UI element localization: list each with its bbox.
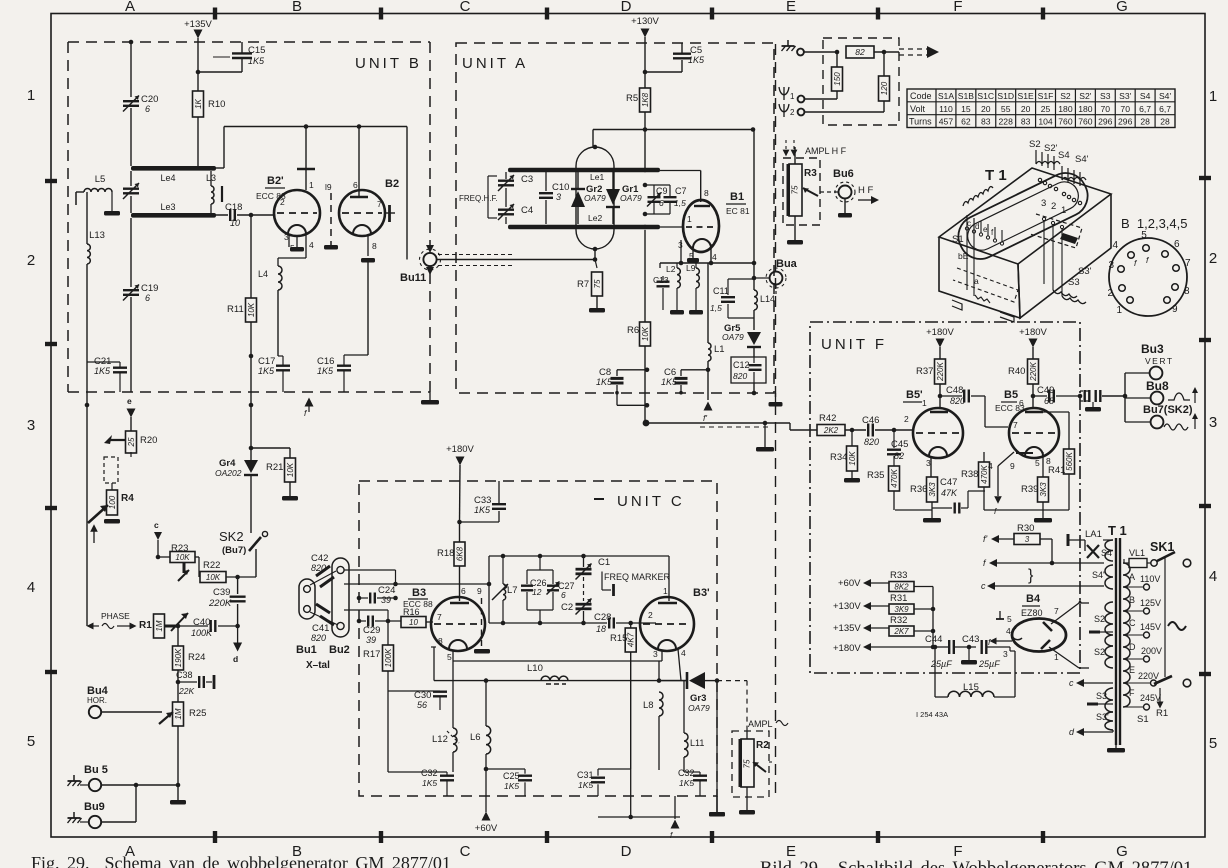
Le3 winding bar [131, 213, 216, 218]
svg-text:C15: C15 [248, 45, 265, 56]
svg-text:S1B: S1B [958, 91, 975, 101]
secondary S2' winding [1105, 646, 1113, 668]
svg-text:1K: 1K [194, 98, 203, 108]
svg-text:760: 760 [1058, 117, 1073, 127]
svg-text:1: 1 [1209, 88, 1217, 105]
svg-text:10K: 10K [848, 451, 857, 466]
svg-text:110: 110 [939, 104, 953, 114]
svg-text:10: 10 [409, 618, 418, 627]
svg-text:d: d [975, 222, 979, 231]
Le4 winding bar [131, 166, 216, 171]
svg-text:75: 75 [593, 279, 602, 288]
B4 cathode circle [1012, 628, 1022, 640]
svg-text:F: F [1129, 688, 1135, 698]
svg-text:C13: C13 [653, 275, 669, 285]
triode B1 [683, 200, 719, 252]
svg-text:C7: C7 [675, 186, 687, 196]
socket pin 9 [1164, 297, 1171, 304]
B2 plate [358, 127, 360, 198]
svg-text:2: 2 [648, 610, 653, 620]
svg-text:2: 2 [27, 252, 35, 269]
junction dots row 3 [85, 403, 90, 408]
svg-text:470K: 470K [980, 464, 989, 483]
svg-text:12: 12 [532, 587, 542, 597]
terminal d arrow [237, 626, 239, 643]
svg-text:C: C [460, 0, 471, 15]
svg-text:S1F: S1F [1038, 91, 1054, 101]
wire crystal bottom [344, 609, 388, 611]
Le2 winding bar [508, 225, 660, 230]
svg-text:Bu9: Bu9 [84, 801, 105, 813]
svg-text:R6: R6 [627, 325, 639, 336]
svg-text:145V: 145V [1140, 622, 1161, 632]
svg-text:C32: C32 [421, 768, 438, 778]
svg-text:2: 2 [1209, 250, 1217, 267]
R25 wiper arrow [159, 712, 173, 724]
svg-text:S4': S4' [1075, 154, 1089, 165]
wire [130, 108, 132, 166]
antenna input 2 [779, 104, 789, 117]
svg-text:R2: R2 [756, 740, 769, 751]
socket pin 1 [1127, 297, 1134, 304]
svg-text:I 254 43A: I 254 43A [916, 710, 948, 719]
svg-text:296: 296 [1098, 117, 1113, 127]
gang dashed link [583, 577, 585, 601]
svg-text:R30: R30 [1017, 523, 1034, 534]
svg-text:3: 3 [27, 417, 35, 434]
svg-text:18: 18 [596, 624, 606, 634]
svg-text:S1C: S1C [977, 91, 994, 101]
svg-text:B: B [292, 0, 302, 15]
junction dots [304, 124, 309, 129]
E-column long dashed boundary [775, 44, 777, 795]
svg-text:S2: S2 [1029, 139, 1041, 150]
svg-text:S3': S3' [1078, 266, 1092, 277]
svg-text:Bild 29. Schaltbild des Wobbe: Bild 29. Schaltbild des Wobbelgenerators… [760, 859, 1192, 868]
svg-text:Le4: Le4 [160, 173, 175, 183]
svg-text:C25: C25 [503, 771, 520, 781]
resistor R34 [851, 430, 853, 446]
svg-text:1K5: 1K5 [596, 377, 613, 387]
R23 wiper arrow [183, 562, 186, 573]
capacitor C41 plates [316, 604, 330, 613]
svg-text:R7: R7 [577, 279, 589, 290]
svg-text:120: 120 [880, 81, 889, 95]
svg-text:T 1: T 1 [1108, 523, 1127, 538]
svg-text:39: 39 [381, 595, 391, 605]
socket pin 6 [1162, 251, 1169, 258]
frame tick marks top [213, 8, 217, 20]
svg-text:4: 4 [681, 648, 686, 658]
B5 plate [1025, 411, 1043, 414]
resistor R7 [594, 249, 596, 260]
svg-text:8: 8 [1184, 286, 1190, 297]
svg-text:C3: C3 [521, 174, 533, 185]
B2 cathode pin 8 [367, 236, 369, 256]
B3 grid feed from oscillator [628, 621, 633, 626]
svg-text:Bu3: Bu3 [1141, 342, 1164, 356]
svg-text:Volt: Volt [910, 104, 926, 114]
svg-text:55: 55 [1001, 104, 1011, 114]
svg-text:3: 3 [653, 649, 658, 659]
svg-text:10K: 10K [286, 462, 295, 477]
R2 dashed box [732, 731, 769, 797]
svg-text:UNIT B: UNIT B [355, 55, 422, 72]
+180V arrow [456, 457, 465, 466]
svg-text:R4: R4 [121, 493, 134, 504]
T1 foot right [1000, 312, 1014, 322]
svg-text:+130V: +130V [833, 601, 861, 612]
S3 tap bar [1087, 703, 1098, 706]
svg-text:2: 2 [280, 197, 285, 207]
svg-text:3: 3 [1108, 260, 1114, 271]
chassis bar right of C12 [775, 393, 777, 402]
wire [197, 38, 199, 91]
svg-text:c: c [1069, 678, 1074, 688]
+130V arrow [641, 29, 650, 38]
svg-text:R15: R15 [610, 633, 627, 644]
secondary S3' winding [1105, 712, 1113, 730]
svg-text:UNIT A: UNIT A [462, 55, 528, 72]
svg-text:L12: L12 [432, 734, 448, 745]
capacitor C18 [229, 209, 231, 221]
svg-text:2: 2 [790, 108, 795, 117]
triode B5 [1009, 408, 1059, 458]
trimmer between Le4 and Le3 [130, 171, 132, 186]
T1 top coil group S2 S2' [1036, 150, 1054, 170]
wire [177, 726, 179, 785]
svg-text:C1: C1 [598, 557, 610, 568]
svg-text:d: d [233, 654, 238, 664]
svg-text:L6: L6 [470, 732, 481, 743]
svg-text:G: G [1116, 843, 1128, 860]
svg-text:9: 9 [1172, 304, 1178, 315]
svg-text:1: 1 [1061, 205, 1066, 216]
svg-text:C18: C18 [225, 202, 242, 213]
svg-text:25: 25 [1041, 104, 1051, 114]
svg-text:4K7: 4K7 [627, 632, 636, 647]
svg-text:4: 4 [309, 240, 314, 250]
svg-text:6: 6 [1019, 398, 1024, 408]
svg-text:56: 56 [417, 700, 427, 710]
svg-text:C47: C47 [940, 477, 957, 488]
svg-text:Bu1: Bu1 [296, 644, 317, 656]
T1 body right face [1018, 194, 1111, 318]
svg-text:T 1: T 1 [985, 167, 1007, 184]
svg-text:5: 5 [1209, 735, 1217, 752]
svg-text:1: 1 [1116, 305, 1122, 316]
svg-text:Bu7(SK2): Bu7(SK2) [1143, 404, 1193, 416]
svg-text:R1: R1 [139, 620, 152, 631]
svg-text:2: 2 [904, 414, 909, 424]
B3 plate [450, 602, 469, 605]
R2 wires [746, 731, 748, 739]
svg-text:AMPL H F: AMPL H F [805, 146, 847, 156]
attenuator dashed box [823, 38, 899, 125]
selector blade lower [1154, 676, 1172, 684]
svg-text:1,5: 1,5 [710, 303, 722, 313]
svg-text:Le3: Le3 [160, 202, 175, 212]
svg-text:+180V: +180V [833, 643, 861, 654]
svg-text:1,5: 1,5 [674, 198, 686, 208]
svg-text:A: A [125, 0, 135, 15]
svg-text:S1D: S1D [997, 91, 1014, 101]
svg-text:f': f' [703, 413, 707, 423]
AMPL HF dashed box [783, 158, 820, 225]
svg-text:+60V: +60V [838, 578, 861, 589]
svg-text:R3: R3 [804, 168, 817, 179]
svg-text:+180V: +180V [1019, 327, 1047, 338]
svg-text:S4': S4' [1159, 91, 1172, 101]
potentiometer R25 [173, 702, 184, 726]
svg-text:296: 296 [1118, 117, 1133, 127]
T1 top coil group S4 S4' [1062, 166, 1080, 186]
svg-text:R10: R10 [208, 99, 225, 110]
svg-text:7: 7 [1185, 258, 1191, 269]
svg-text:H F: H F [858, 185, 874, 196]
rectifier B4 [1012, 619, 1066, 652]
svg-text:1K5: 1K5 [679, 778, 694, 788]
svg-text:1K8: 1K8 [641, 92, 650, 107]
svg-text:R11: R11 [227, 304, 244, 315]
svg-text:200V: 200V [1141, 646, 1162, 656]
svg-text:83: 83 [1021, 117, 1031, 127]
wire [794, 147, 796, 164]
capacitor C33 [457, 520, 462, 525]
svg-text:L5: L5 [95, 174, 106, 185]
svg-text:C12: C12 [733, 360, 750, 370]
R2 wiper arrow [753, 762, 766, 772]
triode B2' [274, 190, 320, 236]
svg-text:LA1: LA1 [1085, 529, 1102, 540]
svg-text:C32: C32 [678, 768, 695, 778]
resistor R21 [251, 447, 290, 449]
svg-text:OA202: OA202 [215, 468, 242, 478]
wire crystal top [344, 569, 396, 571]
svg-text:L14: L14 [760, 294, 775, 304]
ground [794, 225, 796, 240]
svg-text:R38: R38 [961, 469, 978, 480]
svg-text:L7: L7 [507, 585, 518, 596]
svg-text:150: 150 [833, 72, 842, 86]
svg-text:6: 6 [145, 104, 150, 114]
svg-text:UNIT F: UNIT F [821, 336, 887, 353]
svg-text:1K5: 1K5 [688, 55, 705, 65]
svg-text:100: 100 [108, 495, 117, 509]
svg-text:180: 180 [1058, 104, 1073, 114]
ground stub left of R2 [716, 796, 718, 812]
transformer ground [1115, 745, 1117, 748]
svg-text:Le1: Le1 [590, 172, 604, 182]
svg-text:+130V: +130V [631, 16, 659, 27]
junction dot bottom bus [598, 816, 680, 818]
svg-text:25: 25 [127, 437, 136, 447]
svg-text:1K5: 1K5 [422, 778, 437, 788]
svg-text:6: 6 [145, 293, 150, 303]
svg-text:3: 3 [1025, 535, 1030, 544]
T1 top wire ends [1038, 178, 1041, 181]
resistor R15 [630, 623, 632, 628]
svg-text:B4: B4 [1026, 593, 1041, 605]
svg-text:220K: 220K [208, 598, 232, 609]
connector Bu1 plate [299, 579, 315, 619]
svg-text:e: e [127, 396, 132, 406]
svg-text:820: 820 [864, 437, 879, 447]
svg-text:L9: L9 [686, 263, 696, 273]
triode B3' [640, 597, 694, 651]
svg-text:28: 28 [1160, 117, 1170, 127]
secondary S3 winding [1105, 688, 1113, 712]
capacitor C10 [545, 172, 547, 191]
resistor R10 [193, 91, 204, 117]
potentiometer R4 [107, 490, 118, 515]
svg-text:R37: R37 [916, 366, 933, 377]
resistor 150 [836, 52, 838, 67]
svg-text:3: 3 [1209, 414, 1217, 431]
svg-text:F: F [953, 0, 962, 15]
secondary S4' winding [1105, 565, 1113, 589]
svg-text:B5': B5' [906, 389, 923, 401]
socket pin 8 [1172, 284, 1179, 291]
UNIT A dashed enclosure [456, 43, 774, 393]
svg-text:S2: S2 [1094, 614, 1105, 624]
svg-text:C4: C4 [521, 205, 533, 216]
svg-text:20: 20 [1021, 104, 1031, 114]
chassis bar below Bu11 dashes [429, 392, 431, 400]
svg-text:4: 4 [1006, 626, 1011, 636]
socket pin 3 [1118, 266, 1125, 273]
svg-text:S3: S3 [1096, 691, 1107, 701]
svg-text:R20: R20 [140, 435, 157, 446]
svg-text:R32: R32 [890, 615, 907, 626]
svg-text:47K: 47K [941, 488, 958, 498]
dashed output arrow [899, 48, 928, 50]
svg-text:R22: R22 [203, 560, 220, 571]
svg-text:Bu11: Bu11 [400, 272, 426, 284]
svg-text:3: 3 [284, 232, 289, 242]
triode B3 [431, 597, 485, 651]
svg-text:62: 62 [961, 117, 971, 127]
socket pin 2 [1119, 285, 1126, 292]
resistor 82 [846, 46, 874, 58]
terminal f arrow UNIT A [704, 402, 713, 411]
svg-text:2: 2 [1107, 288, 1113, 299]
marker pickup bar [601, 572, 603, 591]
svg-text:Le2: Le2 [588, 213, 602, 223]
S2 tap bar [1089, 631, 1100, 634]
svg-text:39: 39 [366, 635, 376, 645]
svg-text:S2': S2' [1094, 647, 1107, 657]
svg-text:6,7: 6,7 [1139, 104, 1151, 114]
svg-text:S3': S3' [1119, 91, 1132, 101]
wire plate bus [215, 167, 224, 169]
gang link dashed box [104, 457, 118, 483]
svg-text:Bu2: Bu2 [329, 644, 350, 656]
primary S1 winding [1123, 563, 1130, 707]
wire [804, 51, 837, 53]
svg-text:1: 1 [687, 214, 692, 224]
svg-text:4: 4 [1209, 568, 1217, 585]
svg-text:10: 10 [230, 218, 240, 228]
cathode row wire [453, 660, 662, 662]
svg-text:Fig. 29. Schema van de wobbel: Fig. 29. Schema van de wobbelgenerator G… [31, 853, 451, 868]
svg-text:75: 75 [791, 185, 800, 194]
svg-text:X–tal: X–tal [306, 660, 330, 671]
svg-text:104: 104 [1038, 117, 1053, 127]
wire [237, 214, 274, 216]
trimmer C3 [505, 172, 507, 179]
T1 left coil leads c d e f [963, 187, 993, 206]
B2 grid pin 7 [385, 212, 395, 214]
svg-text:Turns: Turns [909, 117, 932, 127]
svg-text:3K9: 3K9 [894, 605, 909, 614]
gang link [487, 176, 489, 218]
svg-text:4: 4 [1112, 240, 1118, 251]
svg-text:82: 82 [855, 47, 865, 57]
wire [197, 117, 199, 168]
svg-text:3K3: 3K3 [928, 482, 937, 497]
svg-text:R42: R42 [819, 413, 836, 424]
small bar [221, 186, 223, 202]
svg-text:7: 7 [1054, 606, 1059, 616]
UNIT C dashed enclosure [359, 481, 717, 796]
svg-text:8: 8 [704, 188, 709, 198]
svg-text:8K2: 8K2 [894, 583, 909, 592]
svg-text:3K3: 3K3 [1039, 482, 1048, 497]
svg-text:+60V: +60V [475, 823, 498, 834]
resistor R40 [1028, 359, 1039, 384]
wire cathode row [660, 262, 754, 264]
svg-text:S2': S2' [1079, 91, 1092, 101]
svg-text:L8: L8 [643, 700, 654, 711]
output bus [1124, 373, 1126, 422]
UNIT B dashed enclosure [68, 41, 430, 43]
svg-text:B 1,2,3,4,5: B 1,2,3,4,5 [1121, 216, 1188, 231]
transformer core [1115, 538, 1117, 745]
wire L10 row [434, 680, 688, 682]
svg-text:3: 3 [926, 458, 931, 468]
node on UNIT B top edge [129, 40, 134, 45]
grid gang dashed l9 [330, 193, 332, 245]
svg-text:S2': S2' [1044, 143, 1058, 154]
socket pin 7 [1173, 265, 1180, 272]
svg-text:R35: R35 [867, 470, 884, 481]
svg-text:10K: 10K [175, 553, 190, 562]
svg-text:1: 1 [663, 586, 668, 596]
B3' plate [658, 602, 677, 605]
svg-text:C48: C48 [946, 385, 963, 396]
svg-text:3: 3 [1041, 198, 1046, 209]
svg-text:L10: L10 [527, 663, 543, 674]
svg-text:EC 81: EC 81 [726, 206, 750, 216]
svg-text:FREQ MARKER: FREQ MARKER [604, 572, 671, 582]
svg-text:5: 5 [1035, 458, 1040, 468]
svg-text:190K: 190K [174, 648, 183, 667]
svg-text:4: 4 [712, 252, 717, 262]
svg-text:6: 6 [561, 590, 566, 600]
svg-text:S2: S2 [1060, 91, 1071, 101]
svg-text:S4': S4' [1092, 570, 1105, 580]
wire Le ends [660, 170, 701, 172]
svg-text:C44: C44 [925, 634, 942, 645]
trimmer C4 [505, 188, 507, 207]
svg-text:R1: R1 [1156, 708, 1168, 719]
oscillator box left rail [488, 556, 490, 623]
capacitor C12 box [731, 357, 766, 383]
T1 body front face [939, 237, 1020, 318]
winding data table [907, 89, 1175, 128]
svg-text:R16: R16 [403, 607, 420, 617]
